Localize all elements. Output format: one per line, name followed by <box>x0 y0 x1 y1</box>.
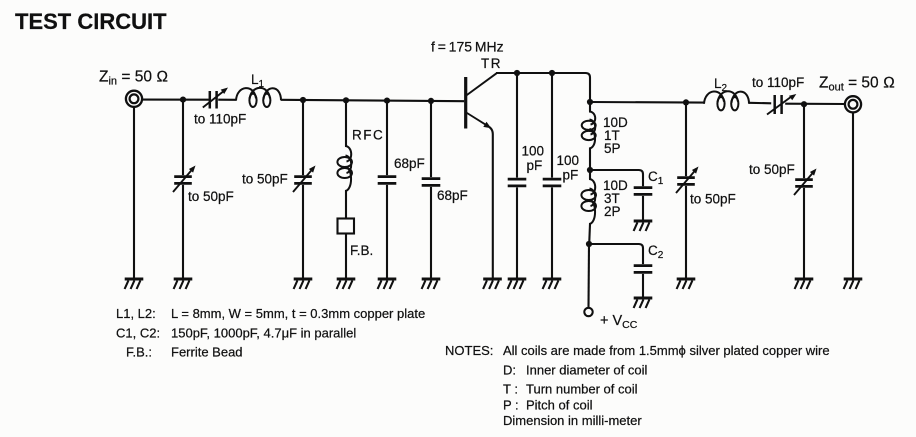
svg-text:T :: T : <box>503 382 518 397</box>
ground <box>294 279 313 289</box>
wire collector top rail <box>496 73 590 112</box>
node output branch <box>587 99 593 105</box>
svg-text:C2: C2 <box>648 243 664 261</box>
wire shunt branch 1 lower <box>182 185 184 278</box>
wire C2 to ground <box>642 274 644 297</box>
ground <box>125 279 144 289</box>
svg-text:TEST CIRCUIT: TEST CIRCUIT <box>15 9 167 34</box>
trimmer capacitor CT6 (shunt, to 50pF) <box>794 169 817 196</box>
transistor TR base bar <box>464 77 467 129</box>
wire shunt branch 1 upper <box>182 100 184 176</box>
ground <box>634 298 653 308</box>
svg-text:to 50pF: to 50pF <box>242 172 288 187</box>
wire input rail segment A <box>142 99 209 101</box>
wire 68pF branch 2 upper <box>430 101 432 177</box>
wire Vcc feed <box>587 244 590 307</box>
capacitor 100pF #1 <box>508 179 527 186</box>
node 100pF branch 2 <box>549 70 555 76</box>
capacitor C1 <box>634 188 653 195</box>
ground <box>337 279 356 289</box>
wire trimmer to output connector <box>785 103 845 105</box>
svg-text:to 50pF: to 50pF <box>188 189 234 204</box>
wire 100pF branch 2 lower <box>551 187 553 278</box>
svg-text:5P: 5P <box>604 141 621 156</box>
node L1 output <box>300 97 306 103</box>
svg-text:pF: pF <box>527 158 543 173</box>
trimmer capacitor CT2 (shunt, to 50pF) <box>173 166 196 193</box>
wire 100pF branch 1 upper <box>516 73 518 178</box>
input connector J1 <box>126 91 142 107</box>
svg-text:P :: P : <box>503 398 519 413</box>
transistor TR collector lead <box>466 73 496 95</box>
wire connector to ground <box>133 107 135 278</box>
svg-text:Ferrite Bead: Ferrite Bead <box>171 345 243 360</box>
wire 100pF branch 1 lower <box>516 187 518 278</box>
svg-text:2P: 2P <box>604 204 621 219</box>
wire output shunt branch lower <box>685 186 687 278</box>
wire L2 to trimmer <box>749 102 771 105</box>
ground <box>844 279 863 289</box>
trimmer capacitor CT3 (shunt, to 50pF) <box>293 166 316 193</box>
node output trimmer branch <box>683 99 689 105</box>
svg-text:f = 175 MHz: f = 175 MHz <box>431 39 504 55</box>
svg-text:100: 100 <box>557 153 580 168</box>
wire input rail segment B <box>218 99 236 101</box>
trimmer capacitor CT4 (shunt, to 50pF) <box>676 167 699 194</box>
svg-text:68pF: 68pF <box>437 188 468 203</box>
ground <box>378 279 397 289</box>
node C2 / Vcc branch <box>586 241 592 247</box>
wire 100pF branch 2 upper <box>551 73 553 178</box>
ground <box>483 279 502 289</box>
ground <box>795 279 814 289</box>
wire 68pF branch 1 upper <box>386 101 388 176</box>
svg-text:F.B.:: F.B.: <box>126 345 152 360</box>
svg-text:NOTES:: NOTES: <box>445 343 493 358</box>
svg-text:F.B.: F.B. <box>350 243 373 258</box>
wire output connector to ground <box>852 112 854 278</box>
wire choke to Vcc node <box>588 224 591 244</box>
svg-text:Turn number of coil: Turn number of coil <box>526 382 638 397</box>
terminal +Vcc <box>584 308 592 316</box>
svg-text:C1, C2:: C1, C2: <box>116 326 160 341</box>
wire RFC to ferrite bead <box>345 191 347 219</box>
wire output shunt branch 2 lower <box>803 188 805 278</box>
svg-text:RFC: RFC <box>352 128 384 143</box>
trimmer capacitor CT5 (series, to 110pF) <box>767 94 796 115</box>
node output connector branch <box>801 101 807 107</box>
svg-text:+ VCC: + VCC <box>600 313 638 331</box>
svg-text:L1: L1 <box>251 72 265 90</box>
svg-text:TR: TR <box>481 56 502 71</box>
inductor L1 <box>236 88 281 107</box>
svg-text:Dimension in milli-meter: Dimension in milli-meter <box>503 413 642 428</box>
wire input rail segment C <box>281 100 464 101</box>
ground <box>677 279 696 289</box>
svg-text:Pitch of coil: Pitch of coil <box>526 398 593 413</box>
wire shunt branch 2 lower <box>302 185 304 278</box>
svg-text:pF: pF <box>563 168 579 183</box>
wire shunt branch 2 upper <box>302 100 304 175</box>
node 68pF branch 2 <box>428 98 434 104</box>
node 100pF branch 1 <box>514 70 520 76</box>
svg-text:68pF: 68pF <box>394 156 425 171</box>
wire output shunt branch 2 upper <box>803 104 805 178</box>
wire C1 to ground <box>642 196 644 220</box>
svg-text:100: 100 <box>522 144 545 159</box>
node 68pF branch 1 <box>384 98 390 104</box>
transistor TR emitter lead with arrow <box>466 113 491 129</box>
ground <box>174 279 193 289</box>
node C1 branch <box>587 167 593 173</box>
wire to C2 <box>589 244 643 264</box>
wire 68pF branch 2 lower <box>430 187 432 278</box>
capacitor 68pF #2 <box>422 179 441 186</box>
ground <box>422 279 441 289</box>
ground <box>634 221 653 231</box>
svg-text:D:: D: <box>503 363 516 378</box>
trimmer capacitor CT1 (series, to 110pF) <box>203 88 228 109</box>
wire RFC branch upper <box>345 100 347 146</box>
inductor choke 10D 3T 2P <box>581 179 596 224</box>
inductor RFC <box>337 146 352 191</box>
output connector J2 <box>845 96 861 112</box>
svg-text:Zin = 50 Ω: Zin = 50 Ω <box>99 69 168 88</box>
svg-text:Zout = 50 Ω: Zout = 50 Ω <box>819 75 895 94</box>
capacitor C2 <box>634 266 653 273</box>
ground <box>508 279 527 289</box>
node at input shunt branch <box>180 97 186 103</box>
svg-text:Inner diameter of coil: Inner diameter of coil <box>526 363 648 378</box>
svg-text:to 110pF: to 110pF <box>752 75 804 90</box>
wire emitter to ground <box>489 127 493 278</box>
wire ferrite bead to ground <box>345 234 347 279</box>
capacitor 68pF #1 <box>378 177 397 184</box>
svg-text:to 50pF: to 50pF <box>749 162 795 177</box>
inductor L2 <box>704 91 749 110</box>
inductor choke 10D 1T 5P <box>582 112 596 149</box>
wire between chokes <box>589 149 591 180</box>
ferrite bead F.B. <box>338 219 355 234</box>
wire output row left <box>590 101 704 104</box>
wire to C1 <box>590 170 643 186</box>
capacitor 100pF #2 <box>543 179 562 186</box>
wire 68pF branch 1 lower <box>386 185 388 278</box>
node RFC branch <box>343 97 349 103</box>
svg-text:to 110pF: to 110pF <box>194 112 246 127</box>
svg-text:150pF, 1000pF, 4.7μF in parall: 150pF, 1000pF, 4.7μF in parallel <box>171 326 356 341</box>
ground <box>543 279 562 289</box>
svg-text:L1, L2:: L1, L2: <box>116 306 156 321</box>
svg-text:C1: C1 <box>648 169 664 187</box>
svg-text:L = 8mm, W = 5mm, t = 0.3mm co: L = 8mm, W = 5mm, t = 0.3mm copper plate <box>171 306 425 321</box>
svg-text:All coils are made from 1.5mmϕ: All coils are made from 1.5mmϕ silver pl… <box>503 343 830 358</box>
svg-text:to 50pF: to 50pF <box>690 192 736 207</box>
wire output shunt branch upper <box>685 102 687 176</box>
